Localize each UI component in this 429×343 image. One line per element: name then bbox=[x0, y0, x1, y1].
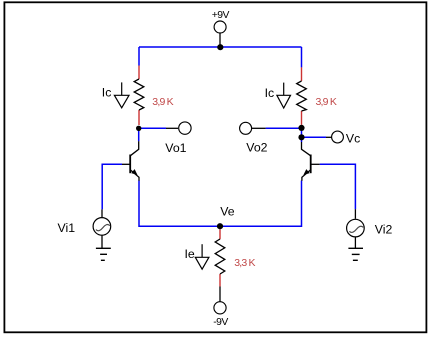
svg-text:+9V: +9V bbox=[212, 10, 230, 21]
svg-text:Vo1: Vo1 bbox=[165, 141, 186, 155]
svg-text:Vo2: Vo2 bbox=[246, 141, 267, 155]
svg-text:Ve: Ve bbox=[220, 204, 235, 218]
svg-text:-9V: -9V bbox=[213, 317, 228, 328]
svg-text:Vi2: Vi2 bbox=[375, 223, 393, 237]
svg-text:Ic: Ic bbox=[102, 86, 112, 100]
svg-text:3,9 K: 3,9 K bbox=[316, 96, 337, 108]
svg-text:3,3 K: 3,3 K bbox=[234, 257, 255, 269]
svg-text:Vi1: Vi1 bbox=[58, 221, 76, 235]
svg-text:Ie: Ie bbox=[185, 247, 195, 261]
svg-text:3,9 K: 3,9 K bbox=[152, 96, 173, 108]
svg-text:Ic: Ic bbox=[265, 86, 275, 100]
svg-text:Vc: Vc bbox=[346, 132, 360, 146]
